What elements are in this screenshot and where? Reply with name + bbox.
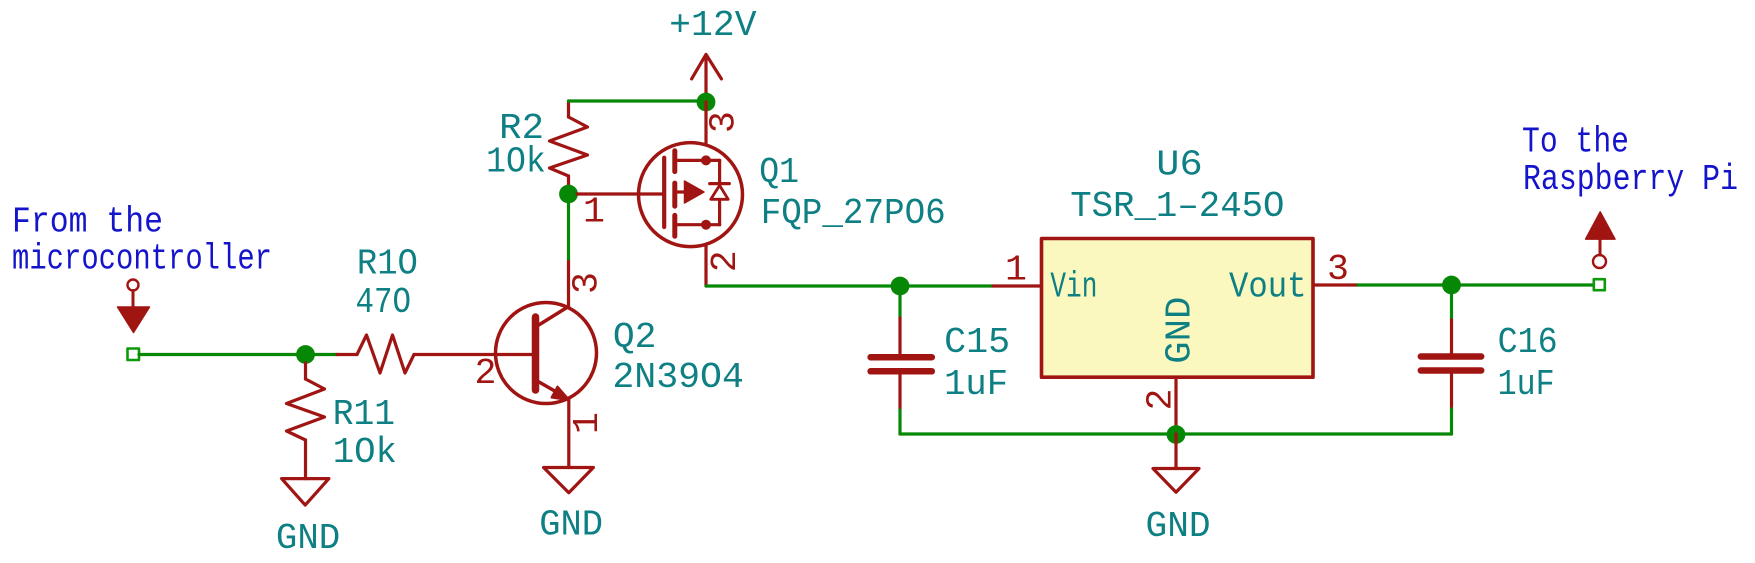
- output pin square: [1594, 279, 1605, 290]
- regulator U6: [1042, 239, 1314, 378]
- svg-text:Raspberry Pi: Raspberry Pi: [1523, 159, 1738, 200]
- svg-text:1uF: 1uF: [1498, 364, 1555, 405]
- wire ground bus: [900, 432, 1452, 435]
- capacitor C15: [898, 294, 901, 318]
- svg-text:GND: GND: [276, 518, 340, 559]
- svg-text:1uF: 1uF: [944, 364, 1008, 405]
- svg-text:To the: To the: [1522, 122, 1629, 163]
- svg-text:2: 2: [475, 353, 497, 394]
- svg-text:1: 1: [583, 192, 605, 233]
- svg-text:R1O: R1O: [357, 244, 418, 285]
- output terminal arrow: [1586, 212, 1615, 268]
- node output junction: [1442, 276, 1461, 295]
- svg-text:microcontroller: microcontroller: [12, 239, 272, 280]
- wire U6 Vout to output: [1358, 283, 1594, 286]
- resistor R11: [287, 363, 325, 479]
- node ground junction: [1167, 425, 1186, 444]
- svg-text:R11: R11: [333, 394, 395, 435]
- svg-text:Q2: Q2: [613, 317, 657, 358]
- transistor Q1: [639, 143, 743, 247]
- svg-text:GND: GND: [1146, 506, 1211, 547]
- capacitor C16: [1450, 294, 1453, 320]
- Q2 emitter pin: [567, 400, 570, 468]
- node +12V junction: [697, 93, 716, 112]
- svg-text:FQP_27PO6: FQP_27PO6: [761, 193, 946, 234]
- svg-text:+12V: +12V: [669, 5, 757, 46]
- ground below R11: [282, 479, 329, 506]
- svg-text:U6: U6: [1156, 145, 1202, 186]
- svg-text:3: 3: [704, 111, 745, 133]
- resistor R2: [550, 101, 588, 194]
- input terminal arrow: [118, 280, 150, 333]
- Q1 pin 3 (top): [704, 102, 707, 144]
- Q2 collector pin: [567, 259, 570, 307]
- svg-text:1: 1: [1005, 250, 1027, 291]
- svg-text:Vout: Vout: [1229, 267, 1307, 308]
- ground below Q2: [544, 468, 594, 493]
- input pin square: [128, 349, 140, 361]
- svg-text:3: 3: [1327, 249, 1349, 290]
- svg-text:C16: C16: [1498, 322, 1558, 363]
- power +12V: [692, 54, 722, 102]
- transistor Q2: [496, 303, 597, 404]
- svg-text:1Ok: 1Ok: [486, 141, 546, 182]
- wire input to node A: [139, 353, 338, 356]
- node R2 bottom junction: [559, 185, 578, 204]
- U6 pin 3: [1313, 283, 1358, 286]
- wire R2 junction to Q2 collector: [567, 203, 570, 259]
- U6 pin 2: [1174, 377, 1177, 434]
- svg-text:2N39O4: 2N39O4: [612, 357, 744, 398]
- wire Q1 drain to U6 Vin: [706, 284, 993, 287]
- ground below U6: [1174, 434, 1177, 469]
- wire R10 to Q2 base: [414, 353, 536, 356]
- svg-text:Vin: Vin: [1050, 267, 1097, 308]
- svg-text:47O: 47O: [356, 282, 412, 323]
- wire R2 top to +12V: [569, 99, 707, 102]
- svg-text:2: 2: [705, 250, 746, 272]
- svg-text:3: 3: [566, 272, 607, 294]
- svg-text:GND: GND: [539, 505, 603, 546]
- svg-text:1: 1: [567, 412, 608, 434]
- U6 pin 1: [993, 284, 1042, 287]
- svg-text:Q1: Q1: [759, 152, 799, 193]
- svg-text:GND: GND: [1159, 297, 1200, 364]
- svg-text:2: 2: [1141, 389, 1182, 411]
- svg-text:1Ok: 1Ok: [333, 432, 397, 473]
- node A junction: [296, 345, 315, 364]
- Q1 pin 2 (bottom): [704, 245, 707, 286]
- resistor R10: [337, 335, 414, 373]
- svg-text:TSR_1–245O: TSR_1–245O: [1070, 186, 1284, 227]
- node main junction: [891, 277, 910, 296]
- svg-text:C15: C15: [944, 322, 1010, 363]
- svg-text:From the: From the: [12, 202, 163, 243]
- wire gate of Q1: [577, 192, 664, 195]
